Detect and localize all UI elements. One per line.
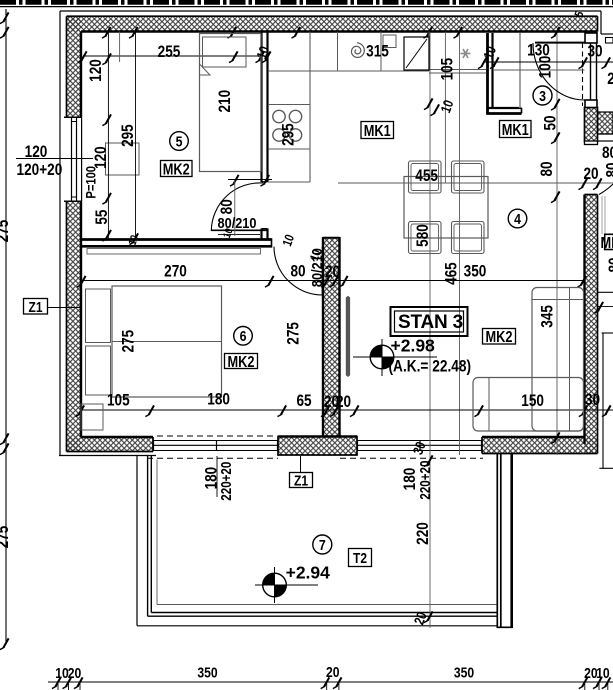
svg-text:350: 350 [454,664,475,681]
svg-text:80: 80 [290,262,305,281]
svg-text:150: 150 [521,392,544,411]
svg-text:120: 120 [86,59,105,82]
svg-text:2: 2 [607,70,613,89]
svg-text:295: 295 [119,124,138,147]
svg-text:220: 220 [414,522,433,545]
svg-text:220+20: 220+20 [218,462,235,501]
svg-text:(A.K.= 22.48): (A.K.= 22.48) [389,357,472,375]
svg-text:105: 105 [438,57,457,80]
svg-text:80: 80 [606,257,613,272]
svg-text:20: 20 [326,664,340,681]
svg-text:315: 315 [366,42,389,61]
svg-text:255: 255 [158,43,181,62]
svg-text:55: 55 [93,209,112,225]
svg-text:455: 455 [415,166,438,185]
svg-text:220+20: 220+20 [417,461,434,500]
svg-text:210: 210 [216,90,235,113]
svg-text:20: 20 [336,393,351,412]
svg-text:MK1: MK1 [364,123,391,141]
svg-text:MK2: MK2 [485,329,512,347]
svg-text:P=100: P=100 [84,166,99,199]
svg-text:80/210: 80/210 [218,214,257,231]
svg-text:80: 80 [538,161,557,176]
svg-text:+2.98: +2.98 [391,336,436,356]
svg-text:180: 180 [207,390,230,409]
svg-text:120+20: 120+20 [17,161,63,180]
svg-text:20: 20 [68,665,82,682]
svg-text:275: 275 [0,219,13,242]
svg-text:465: 465 [442,262,461,285]
svg-text:100: 100 [536,56,555,79]
svg-text:275: 275 [0,525,13,548]
svg-text:295: 295 [279,123,298,146]
svg-text:30: 30 [587,42,602,61]
svg-text:275: 275 [119,329,138,352]
svg-text:120: 120 [91,146,110,169]
svg-text:T2: T2 [353,550,367,567]
svg-text:80: 80 [603,162,613,177]
svg-text:350: 350 [197,664,218,681]
svg-text:105: 105 [107,391,130,410]
svg-text:270: 270 [164,262,187,281]
svg-text:Z1: Z1 [28,298,42,315]
svg-text:3: 3 [539,88,546,104]
svg-text:275: 275 [284,322,303,345]
svg-text:350: 350 [464,262,487,281]
svg-text:+2.94: +2.94 [286,563,331,583]
svg-text:6: 6 [240,328,247,344]
svg-text:Z1: Z1 [294,472,308,489]
svg-text:80: 80 [218,199,237,214]
svg-text:65: 65 [296,392,312,411]
svg-text:50: 50 [541,115,560,130]
svg-text:345: 345 [538,305,557,328]
svg-text:80: 80 [602,144,613,163]
svg-text:30: 30 [585,391,600,410]
svg-text:4: 4 [514,211,521,227]
svg-text:20: 20 [583,165,598,184]
svg-text:10: 10 [596,665,610,682]
svg-text:7: 7 [319,537,326,553]
svg-text:20: 20 [325,263,340,282]
svg-text:5: 5 [176,133,183,149]
svg-text:STAN 3: STAN 3 [398,312,463,333]
svg-text:MK2: MK2 [163,161,190,179]
svg-text:MK: MK [601,235,613,253]
svg-text:MK1: MK1 [502,122,529,140]
svg-text:580: 580 [414,224,433,247]
svg-text:MK2: MK2 [227,354,254,372]
